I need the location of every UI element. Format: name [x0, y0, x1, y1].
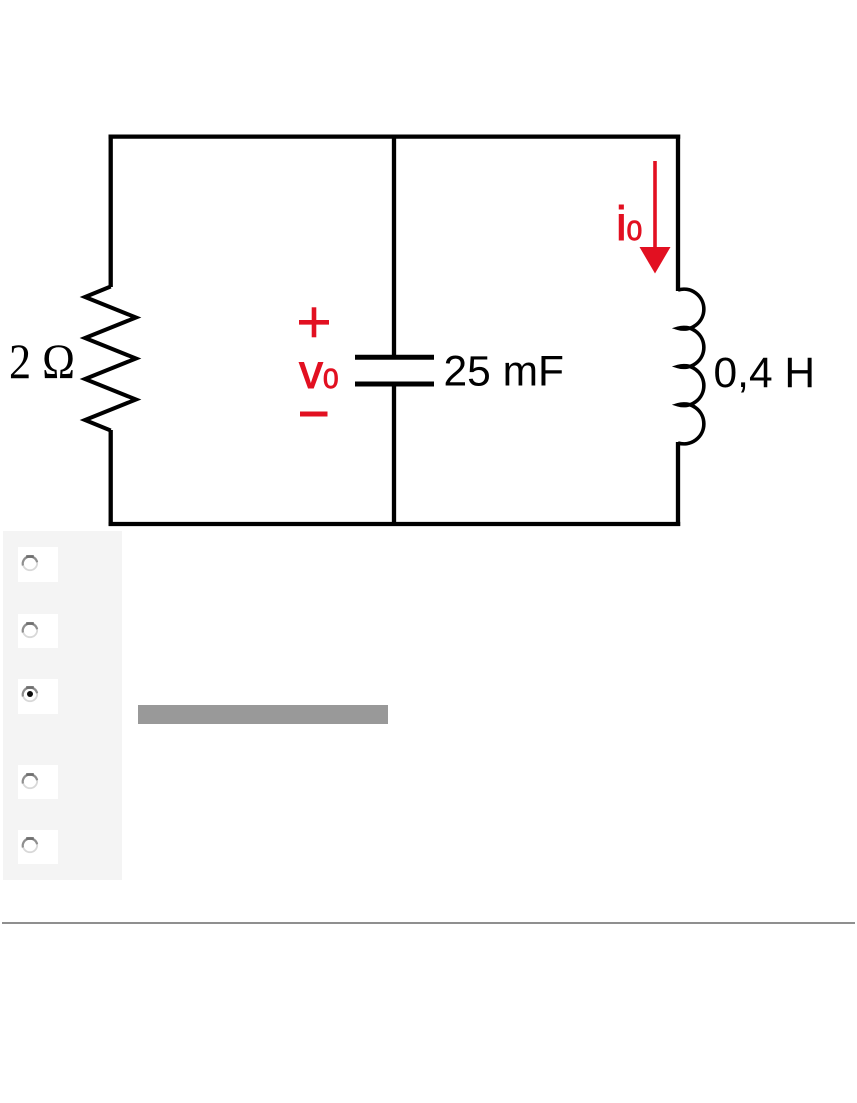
svg-text:v0: v0 — [299, 346, 339, 399]
wire: left branch upper — [109, 135, 113, 288]
inductor L 0,4 H — [678, 289, 704, 444]
wire: bottom rail — [109, 522, 681, 526]
resistor R 2 ohm — [85, 287, 136, 431]
wire: middle branch lower — [392, 386, 396, 526]
radio option cells — [18, 547, 58, 582]
polarity minus sign — [300, 412, 328, 417]
svg-text:2 Ω: 2 Ω — [9, 333, 75, 389]
bottom separator — [2, 922, 855, 924]
wire: left branch lower — [109, 430, 113, 526]
svg-text:i0: i0 — [616, 198, 642, 251]
polarity plus sign — [299, 307, 329, 337]
wire: right branch upper — [676, 135, 680, 292]
svg-text:0,4 H: 0,4 H — [714, 350, 816, 397]
wire: right branch lower — [676, 442, 680, 526]
current arrow i0 — [640, 161, 671, 274]
wire: middle branch upper — [392, 135, 396, 356]
redacted answer bar — [138, 705, 388, 724]
capacitor C 25 mF — [355, 357, 434, 384]
radio buttons — [21, 554, 39, 572]
answer options panel — [3, 531, 122, 880]
wire: top rail — [109, 134, 681, 138]
svg-text:25 mF: 25 mF — [444, 349, 564, 396]
